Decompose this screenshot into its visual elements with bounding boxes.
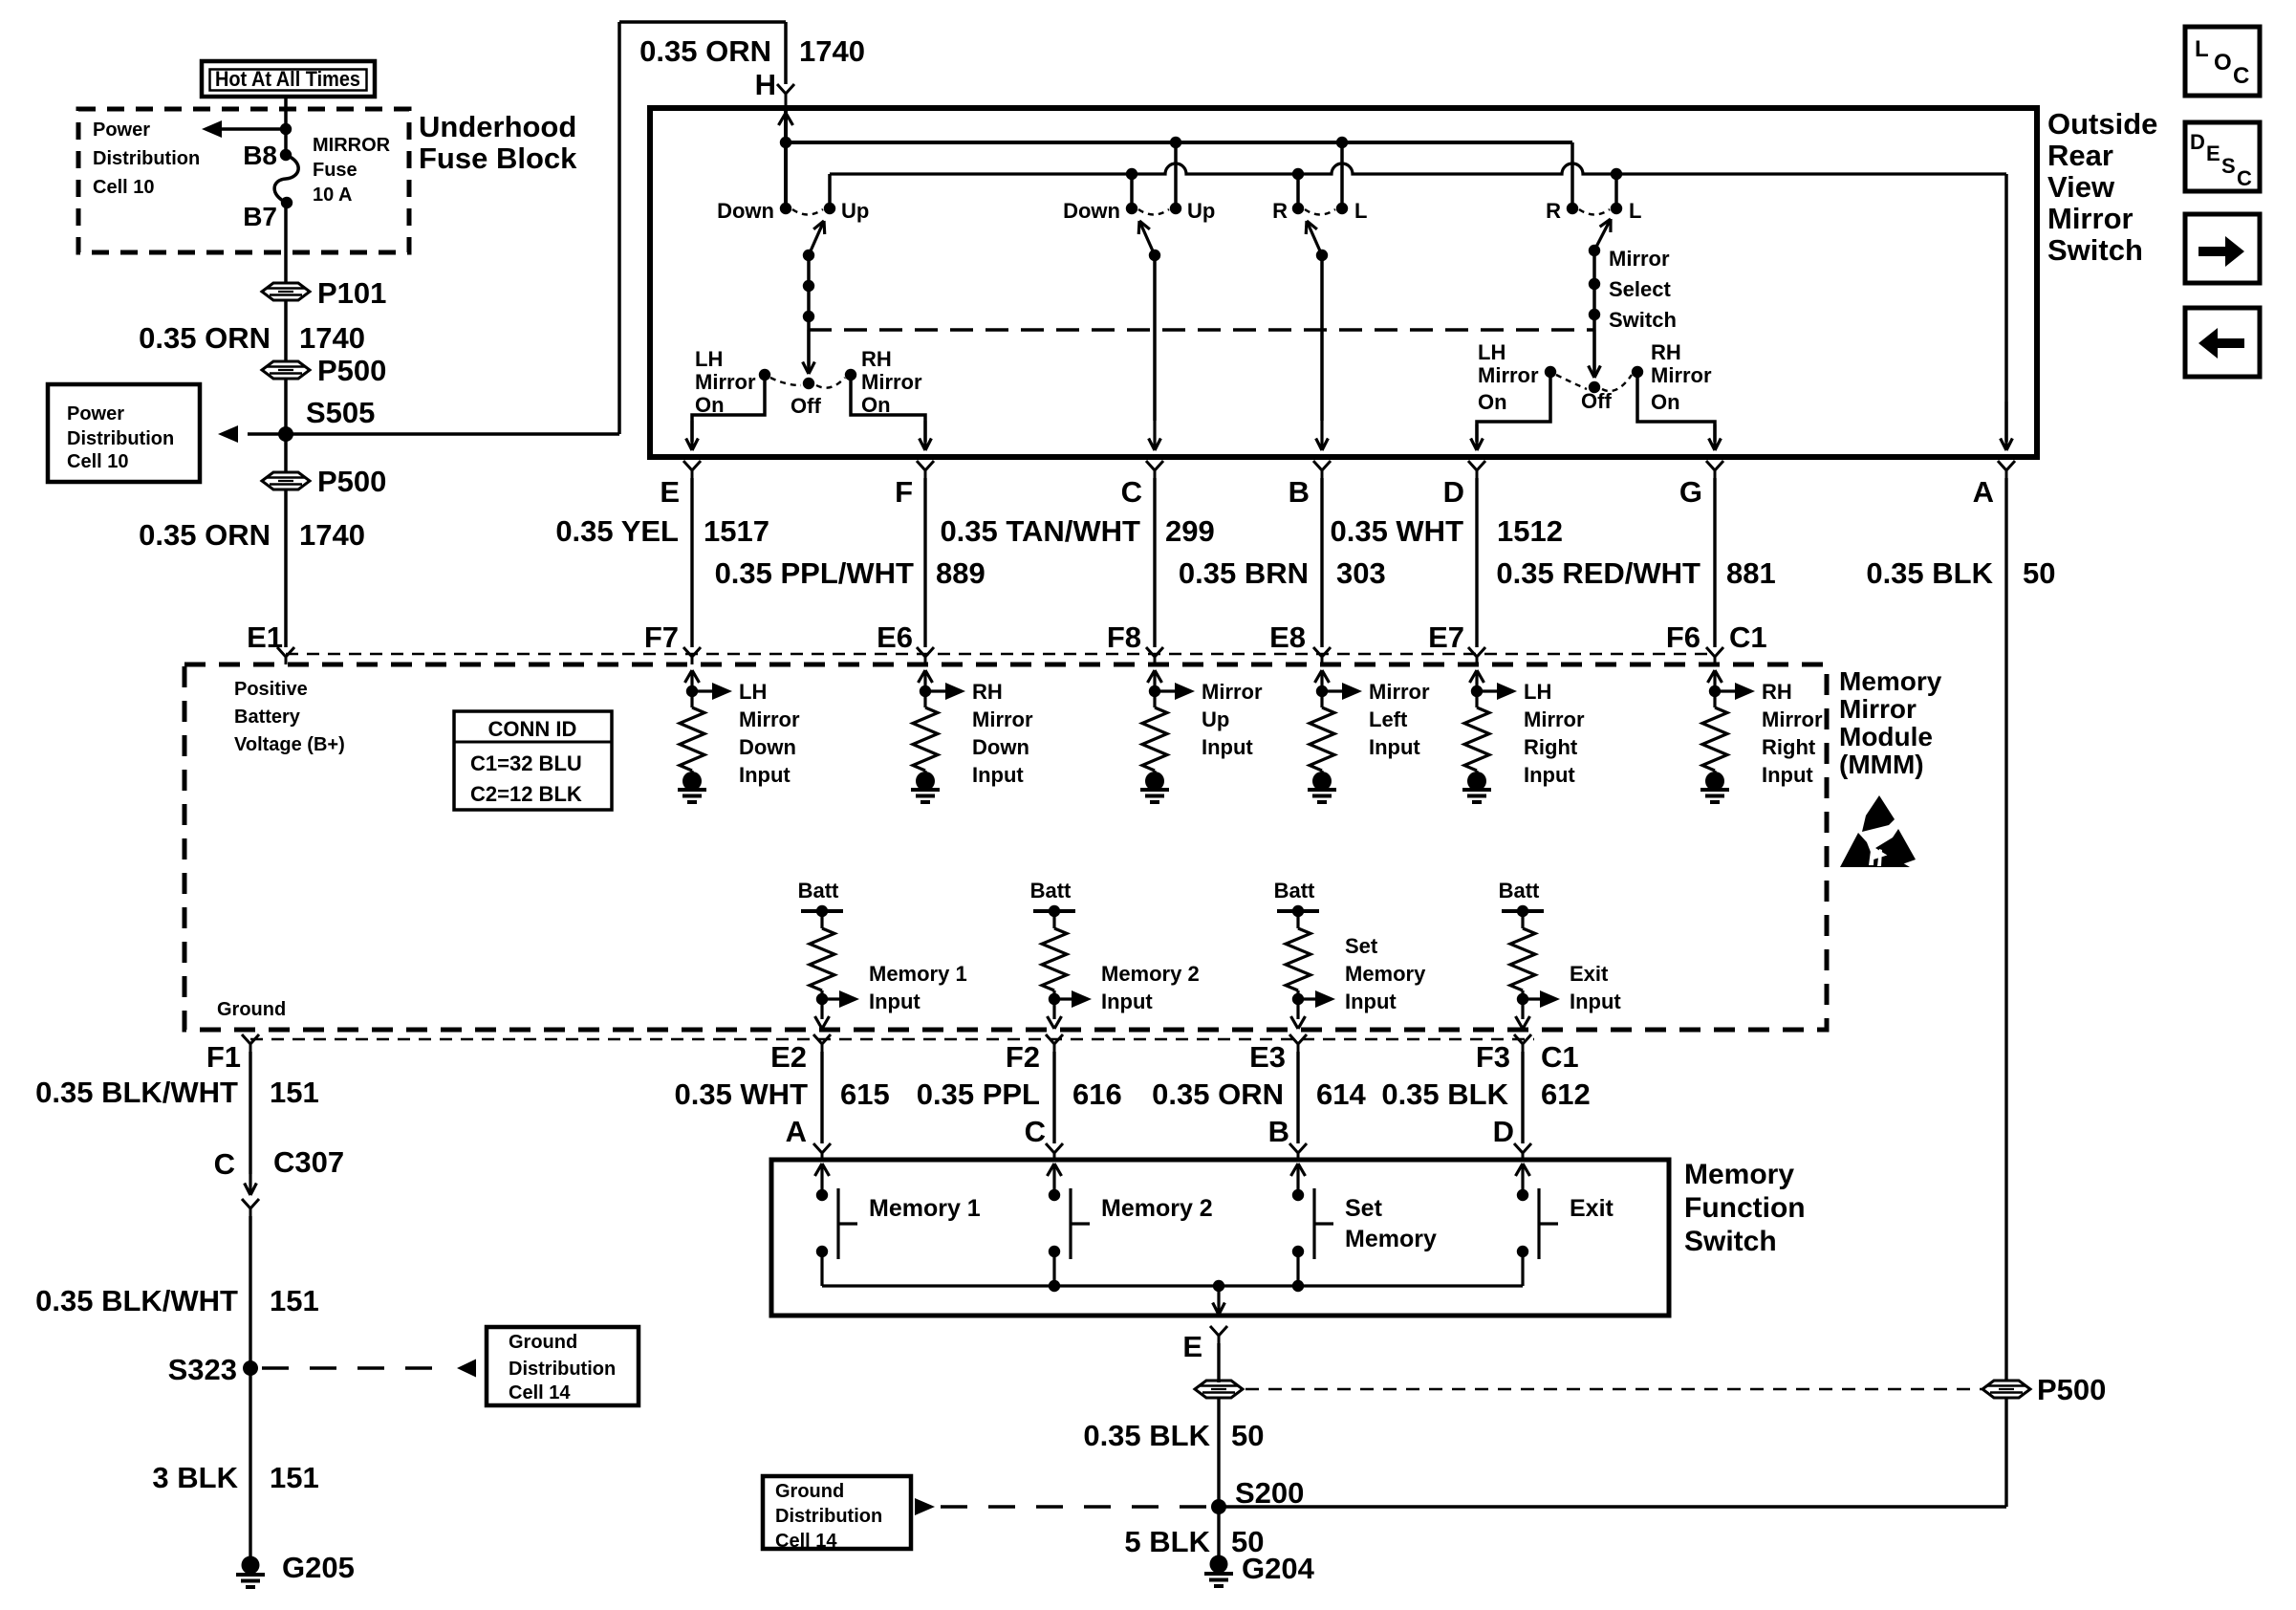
pin B of mirror switch (1313, 461, 1322, 470)
svg-text:0.35 BLK/WHT: 0.35 BLK/WHT (35, 1284, 238, 1317)
wire pin D down to MMM (1475, 478, 1478, 647)
ground (internal) of R5 (1475, 771, 1478, 774)
svg-text:E6: E6 (877, 620, 913, 654)
resistor R4 input pull-down (Mirror Left Input) (1315, 670, 1323, 683)
svg-text:Memory: Memory (1345, 1226, 1437, 1252)
svg-text:Select: Select (1609, 277, 1671, 301)
legend box DESC (2185, 122, 2260, 191)
pin D of mirror switch (1468, 461, 1477, 470)
node at fuse B8 feed (280, 123, 292, 135)
svg-text:0.35 WHT: 0.35 WHT (674, 1077, 808, 1111)
svg-text:R: R (1546, 199, 1561, 223)
svg-text:A: A (1973, 475, 1994, 509)
svg-text:L: L (2195, 36, 2209, 62)
resistor R2 input pull-down (RH Mirror Down Input) (919, 670, 926, 683)
svg-text:10 A: 10 A (313, 185, 353, 206)
svg-text:151: 151 (270, 1284, 319, 1317)
reference box Ground Distribution Cell 14 (S323) (487, 1327, 639, 1405)
reference box Ground Distribution Cell 14 (S200) (763, 1476, 911, 1549)
svg-text:151: 151 (270, 1461, 319, 1494)
svg-text:E3: E3 (1249, 1040, 1286, 1074)
svg-text:0.35 ORN: 0.35 ORN (639, 34, 771, 68)
svg-text:Right: Right (1762, 735, 1816, 759)
svg-text:Positive: Positive (234, 679, 308, 700)
svg-text:A: A (786, 1115, 807, 1148)
svg-text:Input: Input (1369, 735, 1420, 759)
wire pin F down to MMM (923, 478, 926, 647)
svg-text:P500: P500 (317, 354, 386, 387)
svg-text:Memory 1: Memory 1 (869, 962, 967, 986)
CONN ID table (454, 711, 612, 810)
svg-text:C: C (1121, 475, 1142, 509)
svg-text:D: D (2190, 130, 2205, 154)
svg-text:B8: B8 (243, 141, 277, 170)
svg-text:Outside: Outside (2047, 107, 2157, 141)
arrow to Power Distribution Cell 10 box (218, 425, 238, 443)
wire pin E down to MMM (690, 478, 693, 647)
svg-text:G205: G205 (282, 1551, 355, 1584)
svg-text:Batt: Batt (1499, 879, 1540, 903)
svg-text:Up: Up (841, 199, 869, 223)
pin E2 of MMM bottom (813, 1034, 822, 1044)
wire LH On to pin E (692, 375, 765, 442)
svg-text:881: 881 (1726, 556, 1776, 590)
svg-text:Underhood: Underhood (419, 110, 576, 143)
svg-text:Set: Set (1345, 934, 1378, 958)
svg-text:Distribution: Distribution (509, 1359, 616, 1380)
svg-text:Input: Input (1570, 990, 1621, 1013)
svg-text:615: 615 (840, 1077, 890, 1111)
svg-text:5 BLK: 5 BLK (1124, 1525, 1210, 1558)
wire from Hot At All Times to fuse B8 (284, 97, 288, 155)
fuse MIRROR Fuse 10 A (274, 155, 298, 203)
svg-text:0.35 BLK: 0.35 BLK (1083, 1419, 1210, 1452)
svg-text:612: 612 (1541, 1077, 1591, 1111)
arrow to Ground Distribution box (S323) (457, 1360, 476, 1378)
arrow to Power Distribution Cell 10 (202, 120, 222, 138)
contact arc LH horizontal (1305, 209, 1335, 215)
connector P500 (262, 361, 310, 379)
svg-text:Mirror: Mirror (1651, 363, 1712, 387)
pin E of memory function switch (1210, 1326, 1219, 1336)
wire to memory switch pin A (820, 1052, 823, 1143)
svg-text:RH: RH (1762, 680, 1792, 704)
wire P101 to P500 (284, 299, 288, 362)
pin F2 of MMM bottom (1046, 1034, 1054, 1044)
MMM connector C1 dashed line (bottom) (250, 1038, 1534, 1040)
wire to memory switch pin D (1521, 1052, 1524, 1143)
svg-text:Memory: Memory (1684, 1159, 1794, 1190)
svg-text:0.35 ORN: 0.35 ORN (139, 518, 271, 552)
wire LH On to pin D (1477, 372, 1550, 442)
svg-text:0.35 YEL: 0.35 YEL (555, 514, 679, 548)
svg-text:LH: LH (739, 680, 767, 704)
Memory Function Switch box (771, 1160, 1669, 1316)
wire S323 to G205 (249, 1368, 251, 1560)
svg-text:Input: Input (739, 763, 791, 787)
wiper RH mirror vertical switch to pin C (1139, 221, 1155, 255)
svg-text:F7: F7 (644, 620, 679, 654)
svg-text:RH: RH (1651, 340, 1681, 364)
resistor R1 input pull-down (LH Mirror Down Input) (685, 670, 693, 683)
svg-text:(MMM): (MMM) (1839, 750, 1924, 779)
connector P500 lower (262, 472, 310, 490)
svg-text:Memory: Memory (1839, 666, 1942, 696)
wire bus to pin E (1217, 1286, 1220, 1315)
push button switch Set Memory (1291, 1164, 1299, 1176)
svg-text:E7: E7 (1428, 620, 1464, 654)
svg-text:0.35 ORN: 0.35 ORN (139, 321, 271, 355)
svg-text:MIRROR: MIRROR (313, 135, 391, 156)
ground (internal) of R1 (690, 771, 693, 774)
svg-text:E2: E2 (770, 1040, 807, 1074)
wire pin A down to S200 bus (2004, 1397, 2007, 1507)
supply bus 2 (830, 163, 2006, 174)
svg-text:LH: LH (1478, 340, 1505, 364)
svg-text:Batt: Batt (798, 879, 839, 903)
svg-text:Rear: Rear (2047, 139, 2113, 172)
wire RH On to pin G (1637, 372, 1715, 442)
svg-text:1740: 1740 (299, 321, 365, 355)
connector P500 (bottom right, on pin A wire) (1982, 1381, 2030, 1398)
legend box LOC (2185, 27, 2260, 96)
wire C307 to S323 (249, 1216, 251, 1368)
svg-text:Power: Power (93, 120, 150, 141)
wire bus2 to pin A (2004, 174, 2008, 442)
svg-text:R: R (1272, 199, 1288, 223)
svg-text:50: 50 (1231, 1419, 1264, 1452)
svg-text:Down: Down (717, 199, 774, 223)
svg-text:G: G (1679, 475, 1702, 509)
wire H into switch (784, 108, 788, 208)
svg-text:Switch: Switch (1684, 1226, 1777, 1257)
ground G204 (1210, 1556, 1228, 1574)
svg-text:0.35 PPL/WHT: 0.35 PPL/WHT (715, 556, 914, 590)
svg-text:Battery: Battery (234, 707, 301, 728)
svg-text:1740: 1740 (799, 34, 865, 68)
svg-text:C307: C307 (273, 1145, 344, 1179)
wire pin G down to MMM (1713, 478, 1716, 647)
svg-text:Exit: Exit (1570, 1195, 1614, 1222)
svg-text:On: On (1651, 390, 1680, 414)
wire pin F1 to C307 (249, 1052, 251, 1174)
pin E3 of MMM bottom (1289, 1034, 1298, 1044)
contact arcs select right (1556, 375, 1587, 389)
wire button 3 to common bus (1296, 1251, 1299, 1286)
wiper LH mirror horizontal switch to pin B (1307, 221, 1322, 255)
resistor R5 input pull-down (LH Mirror Right Input) (1470, 670, 1478, 683)
svg-text:Input: Input (1524, 763, 1575, 787)
svg-text:F: F (895, 475, 913, 509)
wire P500 to MMM pin E1 (284, 489, 288, 647)
node bus1 to RH left contact (1336, 137, 1348, 148)
svg-text:View: View (2047, 170, 2115, 204)
svg-text:Cell 14: Cell 14 (775, 1531, 837, 1552)
svg-text:299: 299 (1165, 514, 1215, 548)
svg-text:Cell 14: Cell 14 (509, 1382, 571, 1403)
svg-text:F6: F6 (1666, 620, 1700, 654)
svg-text:0.35 PPL: 0.35 PPL (917, 1077, 1040, 1111)
svg-text:889: 889 (936, 556, 986, 590)
svg-text:E: E (2206, 141, 2220, 165)
wire to memory switch pin B (1296, 1052, 1299, 1143)
svg-text:Input: Input (972, 763, 1024, 787)
pin E of mirror switch (683, 461, 692, 470)
svg-text:1512: 1512 (1497, 514, 1563, 548)
push button switch Exit (1516, 1164, 1524, 1176)
wire pin A down right side (2004, 478, 2007, 1382)
svg-text:Mirror: Mirror (1609, 247, 1670, 271)
svg-text:LH: LH (1524, 680, 1551, 704)
svg-text:F3: F3 (1476, 1040, 1510, 1074)
svg-text:E: E (1182, 1330, 1202, 1363)
wire S505 to mirror switch pin H (286, 432, 619, 436)
svg-text:Fuse Block: Fuse Block (419, 141, 577, 175)
svg-text:P101: P101 (317, 276, 386, 310)
dashed reference line to S200 (941, 1505, 1206, 1509)
svg-text:Switch: Switch (1609, 308, 1677, 332)
svg-text:0.35 BLK: 0.35 BLK (1866, 556, 1993, 590)
dashed reference line from S323 (262, 1366, 453, 1370)
svg-text:Mirror: Mirror (861, 370, 922, 394)
reference box Power Distribution Cell 10 (48, 384, 200, 482)
svg-text:Mirror: Mirror (739, 707, 800, 731)
svg-text:P500: P500 (317, 465, 386, 498)
ground (internal) of R3 (1153, 771, 1156, 774)
svg-text:Mirror: Mirror (1762, 707, 1823, 731)
wire S200 to pin A wire (1219, 1505, 2006, 1508)
svg-text:F1: F1 (206, 1040, 241, 1074)
svg-text:Down: Down (739, 735, 796, 759)
wire bus1 down to select R contact (1570, 142, 1574, 208)
svg-text:0.35 ORN: 0.35 ORN (1152, 1077, 1284, 1111)
svg-text:Fuse: Fuse (313, 160, 357, 181)
svg-text:L: L (1354, 199, 1367, 223)
svg-text:Mirror: Mirror (1369, 680, 1430, 704)
svg-text:Input: Input (1202, 735, 1253, 759)
svg-text:303: 303 (1336, 556, 1386, 590)
contact arc RH vertical (1138, 209, 1169, 215)
node bus2 to RH down contact (1292, 168, 1304, 180)
resistor R6 input pull-down (RH Mirror Right Input) (1708, 670, 1716, 683)
wiper mirror select switch (1594, 219, 1611, 250)
svg-text:1740: 1740 (299, 518, 365, 552)
svg-text:Ground: Ground (509, 1332, 577, 1353)
svg-text:Up: Up (1202, 707, 1229, 731)
pin F3 of MMM bottom (1514, 1034, 1523, 1044)
contact arc select (1579, 209, 1610, 215)
svg-text:Down: Down (972, 735, 1029, 759)
svg-text:Input: Input (1345, 990, 1397, 1013)
svg-text:C1: C1 (1729, 620, 1767, 654)
wire button 2 to common bus (1052, 1251, 1055, 1286)
svg-text:0.35 TAN/WHT: 0.35 TAN/WHT (940, 514, 1140, 548)
svg-text:Input: Input (869, 990, 921, 1013)
wire pin C down to MMM (1153, 478, 1156, 647)
wire to memory switch pin C (1052, 1052, 1055, 1143)
svg-text:0.35 BLK: 0.35 BLK (1381, 1077, 1508, 1111)
svg-text:C2=12 BLK: C2=12 BLK (470, 782, 582, 806)
wire button 1 to common bus (820, 1251, 823, 1286)
svg-text:D: D (1443, 475, 1464, 509)
svg-text:Power: Power (67, 403, 124, 424)
wire B7 to P101 (284, 203, 288, 284)
svg-text:Batt: Batt (1030, 879, 1072, 903)
svg-text:Cell 10: Cell 10 (93, 177, 154, 198)
wire button 4 to common bus (1521, 1251, 1524, 1286)
Underhood Fuse Block dashed box (78, 109, 409, 252)
svg-text:614: 614 (1316, 1077, 1366, 1111)
MMM connector C1 dashed line (286, 653, 1709, 655)
svg-text:0.35 WHT: 0.35 WHT (1330, 514, 1463, 548)
pin C of mirror switch (1146, 461, 1155, 470)
svg-text:Memory 2: Memory 2 (1101, 1195, 1213, 1222)
svg-text:Set: Set (1345, 1195, 1383, 1222)
svg-text:Memory 2: Memory 2 (1101, 962, 1200, 986)
Memory Mirror Module dashed box (184, 664, 1827, 1030)
svg-text:Mirror: Mirror (1478, 363, 1539, 387)
svg-text:Down: Down (1063, 199, 1120, 223)
svg-text:S323: S323 (168, 1353, 237, 1386)
svg-text:Mirror: Mirror (1839, 694, 1917, 724)
svg-text:Distribution: Distribution (67, 428, 174, 449)
svg-text:B: B (1289, 475, 1310, 509)
arrow from Ground Distribution box (915, 1498, 935, 1515)
node bus1 to LH up contact (1170, 137, 1181, 148)
svg-text:P500: P500 (2037, 1373, 2106, 1406)
svg-text:B7: B7 (243, 202, 277, 231)
svg-text:O: O (2214, 50, 2232, 76)
svg-text:D: D (1493, 1115, 1514, 1148)
push button switch Memory 2 (1048, 1164, 1055, 1176)
svg-text:S200: S200 (1235, 1476, 1304, 1510)
svg-text:Mirror: Mirror (695, 370, 756, 394)
svg-text:0.35 RED/WHT: 0.35 RED/WHT (1496, 556, 1700, 590)
node bus2 to select L contact (1611, 168, 1622, 180)
svg-text:F2: F2 (1006, 1040, 1040, 1074)
svg-text:H: H (755, 68, 776, 101)
svg-text:Mirror: Mirror (2047, 202, 2134, 235)
svg-text:C1=32 BLU: C1=32 BLU (470, 751, 582, 775)
svg-text:B: B (1268, 1115, 1289, 1148)
connector P101 (262, 283, 310, 300)
node bus output (1213, 1280, 1224, 1292)
flag box Hot At All Times (202, 61, 375, 97)
svg-text:C: C (2233, 63, 2249, 89)
legend box arrow left (2185, 308, 2260, 377)
svg-text:RH: RH (861, 347, 892, 371)
ground (internal) of R2 (923, 771, 926, 774)
svg-text:Memory 1: Memory 1 (869, 1195, 981, 1222)
svg-text:Batt: Batt (1274, 879, 1315, 903)
svg-text:0.35 BRN: 0.35 BRN (1179, 556, 1309, 590)
svg-text:Left: Left (1369, 707, 1408, 731)
common bus of memory function switch (822, 1284, 1523, 1287)
wire S200 to G204 (1217, 1507, 1220, 1560)
connector P500 (bottom) (1195, 1381, 1243, 1398)
svg-text:S: S (2221, 154, 2236, 178)
svg-text:C1: C1 (1541, 1040, 1579, 1074)
svg-text:E8: E8 (1269, 620, 1306, 654)
svg-text:3 BLK: 3 BLK (152, 1461, 238, 1494)
wiper LH mirror vertical switch (809, 221, 824, 255)
svg-text:Distribution: Distribution (93, 148, 200, 169)
svg-text:Hot At All Times: Hot At All Times (215, 67, 360, 91)
svg-text:Exit: Exit (1570, 962, 1609, 986)
svg-text:C: C (1025, 1115, 1046, 1148)
svg-text:Module: Module (1839, 722, 1933, 751)
node bus2 to LH down contact (1126, 168, 1137, 180)
svg-text:CONN ID: CONN ID (488, 717, 577, 741)
wire pin B down to MMM (1320, 478, 1323, 647)
ground G205 (242, 1556, 260, 1575)
contact arcs select left (770, 378, 801, 385)
wire P500 to S505 (284, 378, 288, 473)
svg-text:Ground: Ground (217, 999, 286, 1020)
svg-text:Ground: Ground (775, 1481, 844, 1502)
ground (internal) of R4 (1320, 771, 1323, 774)
mechanical linkage dashed line (809, 328, 1594, 332)
svg-text:0.35 BLK/WHT: 0.35 BLK/WHT (35, 1076, 238, 1109)
svg-text:Up: Up (1187, 199, 1215, 223)
svg-text:LH: LH (695, 347, 723, 371)
svg-text:Voltage (B+): Voltage (B+) (234, 734, 345, 755)
pin F1 of MMM bottom (242, 1034, 250, 1044)
wire to Power Distribution Cell 10 (214, 127, 286, 131)
svg-text:Input: Input (1101, 990, 1153, 1013)
svg-text:Mirror: Mirror (972, 707, 1033, 731)
svg-text:Input: Input (1762, 763, 1813, 787)
svg-text:F8: F8 (1107, 620, 1141, 654)
svg-text:L: L (1629, 199, 1641, 223)
wire to Power Distribution Cell 10 reference (248, 432, 286, 436)
pin F of mirror switch (917, 461, 925, 470)
dashed tie line between P500 halves (1245, 1388, 1982, 1390)
wire RH On to pin F (851, 375, 925, 442)
svg-text:Off: Off (791, 394, 821, 418)
svg-text:C: C (214, 1147, 235, 1181)
wire pin E to P500 (1217, 1343, 1220, 1382)
svg-text:E: E (660, 475, 680, 509)
Outside Rear View Mirror Switch box (650, 108, 2037, 457)
svg-text:Distribution: Distribution (775, 1506, 882, 1527)
svg-text:Switch: Switch (2047, 233, 2143, 267)
svg-text:616: 616 (1072, 1077, 1122, 1111)
svg-text:RH: RH (972, 680, 1003, 704)
ESD sensitive device symbol (1862, 795, 1895, 832)
svg-text:Cell 10: Cell 10 (67, 451, 128, 472)
svg-text:Mirror: Mirror (1524, 707, 1585, 731)
wire P500 to S200 (1217, 1397, 1220, 1507)
resistor R3 input pull-down (Mirror Up Input) (1148, 670, 1156, 683)
supply bus 1 (786, 141, 1572, 144)
svg-text:1517: 1517 (704, 514, 769, 548)
svg-text:151: 151 (270, 1076, 319, 1109)
pin G of mirror switch (1706, 461, 1715, 470)
svg-text:Right: Right (1524, 735, 1578, 759)
ground (internal) of R6 (1713, 771, 1716, 774)
node bus memory2 (1049, 1280, 1060, 1292)
contact arc LH vertical (792, 209, 823, 215)
svg-text:Function: Function (1684, 1192, 1806, 1224)
svg-text:On: On (1478, 390, 1507, 414)
svg-text:S505: S505 (306, 396, 375, 429)
svg-text:50: 50 (2023, 556, 2055, 590)
pin A of mirror switch (1998, 461, 2006, 470)
node H on supply bus (780, 137, 791, 148)
svg-text:G204: G204 (1242, 1552, 1315, 1585)
node bus set memory (1292, 1280, 1304, 1292)
